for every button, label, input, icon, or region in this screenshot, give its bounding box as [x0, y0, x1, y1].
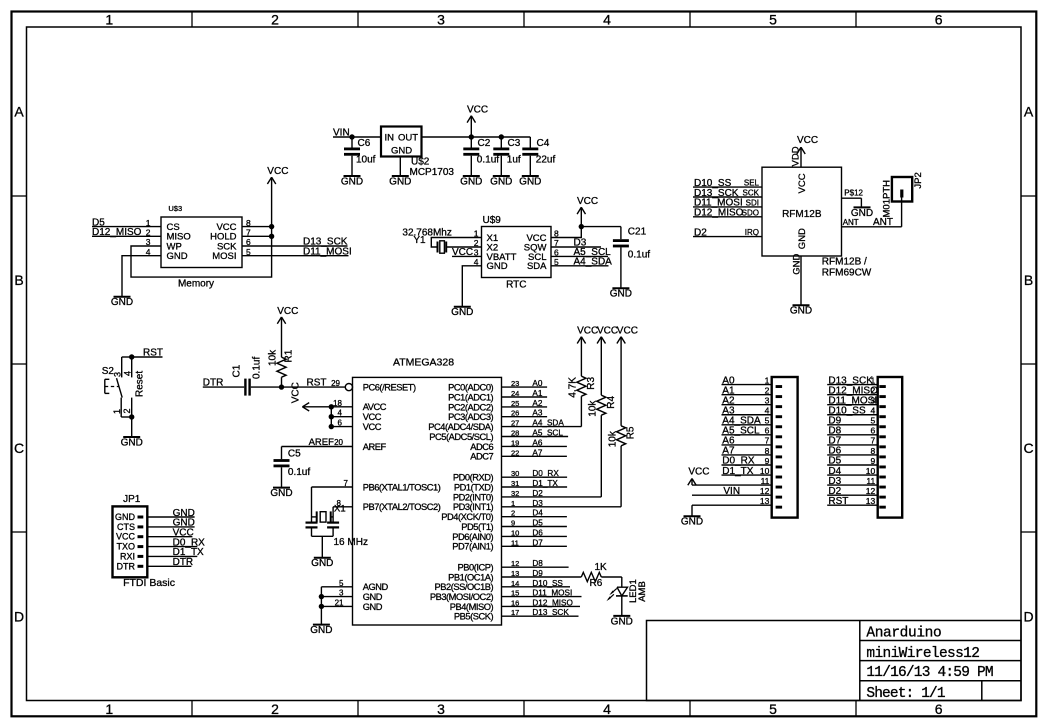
svg-text:PD5(T1): PD5(T1)	[461, 522, 493, 532]
svg-text:D: D	[1024, 608, 1034, 624]
svg-text:D12_MISO: D12_MISO	[694, 208, 744, 219]
svg-text:10k: 10k	[268, 349, 279, 366]
svg-text:RFM12B: RFM12B	[782, 209, 822, 220]
svg-text:C4: C4	[537, 138, 550, 149]
svg-text:JP2: JP2	[913, 172, 924, 188]
svg-text:VCC: VCC	[267, 166, 288, 177]
svg-text:GND: GND	[519, 176, 541, 187]
svg-text:RFM12B /: RFM12B /	[822, 257, 867, 268]
svg-text:VCC: VCC	[577, 326, 598, 337]
svg-text:2: 2	[271, 701, 279, 717]
svg-text:RFM69CW: RFM69CW	[822, 267, 872, 278]
svg-text:D0_RX: D0_RX	[532, 469, 559, 478]
svg-text:RST: RST	[828, 496, 848, 507]
svg-text:AGND: AGND	[363, 582, 389, 592]
svg-text:AVCC: AVCC	[363, 402, 387, 412]
svg-text:5: 5	[339, 579, 344, 588]
svg-text:GND: GND	[487, 261, 508, 272]
svg-text:U$3: U$3	[168, 204, 182, 213]
svg-text:Anarduino: Anarduino	[866, 626, 941, 642]
svg-text:3: 3	[437, 701, 445, 717]
svg-text:S2: S2	[102, 366, 115, 377]
svg-text:PD1(TXD): PD1(TXD)	[454, 482, 494, 492]
svg-text:A7: A7	[532, 448, 542, 457]
svg-text:Reset: Reset	[134, 371, 145, 397]
svg-text:20: 20	[334, 438, 343, 447]
svg-text:VCC: VCC	[452, 247, 473, 258]
svg-text:C21: C21	[628, 227, 647, 238]
svg-text:GND: GND	[270, 488, 292, 499]
svg-text:GND: GND	[681, 517, 703, 528]
svg-text:GND: GND	[451, 307, 473, 318]
svg-text:GND: GND	[389, 176, 411, 187]
svg-text:PC3(ADC3): PC3(ADC3)	[448, 412, 493, 422]
svg-text:U$2: U$2	[411, 157, 430, 168]
svg-text:A4_SDA: A4_SDA	[574, 257, 613, 268]
svg-text:FTDI Basic: FTDI Basic	[123, 577, 175, 589]
svg-text:TXO: TXO	[116, 542, 135, 552]
svg-text:0.1uf: 0.1uf	[477, 155, 499, 166]
svg-text:VCC: VCC	[797, 173, 808, 193]
svg-text:PD2(INT0): PD2(INT0)	[453, 492, 494, 502]
svg-text:ATMEGA328: ATMEGA328	[393, 357, 454, 369]
svg-text:OUT: OUT	[398, 133, 418, 144]
svg-text:VCC: VCC	[277, 306, 298, 317]
svg-text:GND: GND	[797, 228, 808, 249]
svg-text:A4_SDA: A4_SDA	[532, 419, 564, 428]
svg-text:1: 1	[105, 12, 113, 28]
svg-text:RXI: RXI	[120, 551, 135, 561]
svg-text:0.1uf: 0.1uf	[252, 357, 263, 379]
svg-text:2: 2	[122, 408, 132, 413]
svg-text:VIN: VIN	[723, 486, 740, 497]
svg-text:D2: D2	[532, 489, 543, 498]
svg-text:IRQ: IRQ	[745, 228, 759, 237]
svg-text:GND: GND	[610, 289, 632, 300]
svg-text:6: 6	[338, 419, 343, 428]
svg-text:P$12: P$12	[844, 189, 863, 198]
svg-text:A1: A1	[532, 389, 542, 398]
svg-text:PC2(ADC2): PC2(ADC2)	[448, 402, 493, 412]
svg-text:29: 29	[331, 379, 340, 388]
svg-text:IN: IN	[385, 133, 395, 144]
svg-text:VCC: VCC	[363, 422, 382, 432]
svg-text:5: 5	[769, 12, 777, 28]
svg-text:ADC7: ADC7	[470, 452, 493, 462]
svg-text:D1_TX: D1_TX	[532, 479, 558, 488]
svg-text:D6: D6	[532, 528, 543, 537]
svg-text:R5: R5	[626, 426, 637, 439]
svg-text:Memory: Memory	[178, 279, 214, 290]
svg-text:10uf: 10uf	[356, 155, 376, 166]
svg-text:X1: X1	[334, 504, 346, 515]
svg-text:R3: R3	[586, 376, 597, 389]
svg-text:11/16/13 4:59 PM: 11/16/13 4:59 PM	[866, 665, 993, 681]
svg-text:AREF: AREF	[309, 437, 335, 448]
svg-text:ANT: ANT	[873, 217, 893, 228]
svg-text:PC1(ADC1): PC1(ADC1)	[448, 392, 493, 402]
svg-text:4.7K: 4.7K	[568, 377, 579, 398]
svg-text:4: 4	[603, 12, 611, 28]
svg-text:R1: R1	[284, 349, 295, 362]
svg-text:D8: D8	[532, 559, 543, 568]
svg-text:miniWireless12: miniWireless12	[866, 646, 979, 662]
svg-text:MCP1703: MCP1703	[410, 167, 455, 178]
svg-text:B: B	[1024, 272, 1033, 288]
svg-text:GND: GND	[111, 297, 133, 308]
svg-text:GND: GND	[363, 592, 383, 602]
svg-text:GND: GND	[460, 176, 482, 187]
svg-text:Sheet: 1/1: Sheet: 1/1	[866, 686, 944, 702]
svg-text:D1_TX: D1_TX	[722, 466, 753, 477]
svg-text:GND: GND	[790, 306, 812, 317]
svg-text:PC6(/RESET): PC6(/RESET)	[363, 383, 416, 393]
svg-text:VDD: VDD	[791, 146, 802, 166]
svg-text:3: 3	[437, 12, 445, 28]
svg-text:A0: A0	[532, 379, 542, 388]
svg-text:D4: D4	[532, 509, 543, 518]
svg-text:PB2(SS/OC1B): PB2(SS/OC1B)	[435, 582, 494, 592]
svg-text:ADC6: ADC6	[470, 442, 493, 452]
svg-text:D3: D3	[532, 499, 543, 508]
svg-text:RST: RST	[143, 348, 163, 359]
svg-text:10k: 10k	[588, 400, 599, 417]
svg-text:D9: D9	[532, 569, 543, 578]
svg-text:PD0(RXD): PD0(RXD)	[453, 473, 494, 483]
svg-text:PC4(ADC4/SDA): PC4(ADC4/SDA)	[428, 422, 493, 432]
svg-text:A: A	[1024, 104, 1034, 120]
svg-text:MOSI: MOSI	[212, 251, 236, 262]
svg-text:0.1uf: 0.1uf	[288, 467, 310, 478]
svg-text:A: A	[14, 104, 24, 120]
svg-text:GND: GND	[167, 251, 188, 262]
svg-text:2: 2	[271, 12, 279, 28]
svg-text:C6: C6	[358, 138, 371, 149]
svg-text:D11_MOSI: D11_MOSI	[303, 246, 352, 257]
svg-text:R6: R6	[590, 578, 603, 589]
svg-text:GND: GND	[311, 558, 333, 569]
svg-text:C: C	[14, 440, 24, 456]
svg-text:DTR: DTR	[117, 561, 136, 571]
svg-text:PB4(MISO): PB4(MISO)	[450, 602, 494, 612]
svg-text:D12_MISO: D12_MISO	[92, 227, 142, 238]
svg-text:AREF: AREF	[363, 442, 387, 452]
svg-text:SCK: SCK	[743, 189, 760, 198]
svg-text:GND: GND	[611, 616, 633, 627]
svg-text:PD7(AIN1): PD7(AIN1)	[452, 542, 493, 552]
svg-text:A3: A3	[532, 409, 542, 418]
svg-text:RTC: RTC	[506, 280, 526, 291]
svg-text:1K: 1K	[595, 562, 608, 573]
svg-text:10k: 10k	[607, 430, 618, 447]
svg-text:B: B	[14, 272, 23, 288]
svg-text:C5: C5	[288, 448, 301, 459]
svg-text:VIN: VIN	[333, 128, 350, 139]
svg-text:1: 1	[105, 701, 113, 717]
svg-text:18: 18	[333, 399, 342, 408]
svg-text:0.1uf: 0.1uf	[628, 249, 650, 260]
svg-text:VCC: VCC	[597, 326, 618, 337]
svg-text:GND: GND	[490, 176, 512, 187]
svg-text:VCC: VCC	[291, 382, 302, 403]
svg-text:VCC: VCC	[688, 466, 709, 477]
svg-text:C2: C2	[478, 138, 491, 149]
svg-text:21: 21	[335, 598, 344, 607]
svg-text:22uf: 22uf	[536, 155, 556, 166]
svg-text:PB3(MOSI/OC2): PB3(MOSI/OC2)	[430, 592, 494, 602]
svg-text:GND: GND	[363, 602, 383, 612]
svg-text:PB7(XTAL2/TOSC2): PB7(XTAL2/TOSC2)	[363, 502, 441, 512]
svg-text:AMB: AMB	[637, 581, 648, 602]
svg-text:RST: RST	[307, 378, 327, 389]
svg-text:PB5(SCK): PB5(SCK)	[454, 612, 494, 622]
svg-text:4: 4	[603, 701, 611, 717]
svg-text:VCC: VCC	[797, 135, 818, 146]
svg-text:M01PTH: M01PTH	[881, 180, 892, 218]
svg-text:VCC: VCC	[467, 105, 488, 116]
svg-text:GND: GND	[792, 254, 803, 275]
svg-text:4: 4	[338, 409, 343, 418]
svg-text:PC0(ADC0): PC0(ADC0)	[448, 383, 493, 393]
svg-text:DTR: DTR	[173, 557, 194, 568]
svg-text:JP1: JP1	[123, 494, 141, 505]
svg-text:5: 5	[769, 701, 777, 717]
svg-text:SDA: SDA	[527, 261, 547, 272]
svg-text:GND: GND	[121, 437, 143, 448]
svg-text:PB0(ICP): PB0(ICP)	[458, 563, 494, 573]
svg-text:GND: GND	[310, 625, 332, 636]
svg-text:PC5(ADC5/SCL): PC5(ADC5/SCL)	[429, 432, 493, 442]
svg-text:C: C	[1024, 440, 1034, 456]
svg-text:Y1: Y1	[413, 235, 426, 246]
svg-text:A5_SCL: A5_SCL	[532, 429, 563, 438]
svg-text:D10_SS: D10_SS	[532, 579, 563, 588]
svg-text:D5: D5	[532, 519, 543, 528]
svg-text:PD6(AIN0): PD6(AIN0)	[452, 532, 493, 542]
svg-text:SDI: SDI	[746, 198, 759, 207]
svg-text:3: 3	[339, 589, 344, 598]
svg-text:SEL: SEL	[744, 179, 760, 188]
svg-text:ANT: ANT	[843, 218, 859, 227]
svg-text:7: 7	[344, 479, 349, 488]
svg-text:6: 6	[935, 701, 943, 717]
svg-text:D: D	[14, 608, 24, 624]
svg-text:1: 1	[112, 409, 122, 414]
svg-text:C1: C1	[232, 364, 243, 377]
svg-text:A2: A2	[532, 399, 542, 408]
svg-text:6: 6	[935, 12, 943, 28]
svg-text:U$9: U$9	[483, 215, 502, 226]
svg-text:GND: GND	[115, 512, 136, 522]
svg-text:PD3(INT1): PD3(INT1)	[453, 502, 494, 512]
svg-text:D7: D7	[532, 538, 543, 547]
svg-text:D2: D2	[694, 227, 707, 238]
svg-text:GND: GND	[341, 176, 363, 187]
svg-text:VCC: VCC	[617, 326, 638, 337]
svg-text:1uf: 1uf	[507, 155, 521, 166]
svg-text:A6: A6	[532, 438, 542, 447]
svg-text:4: 4	[123, 371, 133, 376]
svg-text:CTS: CTS	[117, 522, 135, 532]
svg-text:GND: GND	[391, 146, 412, 157]
svg-text:SDO: SDO	[742, 208, 759, 217]
svg-text:16 MHz: 16 MHz	[334, 537, 368, 548]
svg-text:VCC: VCC	[577, 196, 598, 207]
svg-text:D13_SCK: D13_SCK	[532, 608, 569, 617]
svg-text:VCC: VCC	[363, 412, 382, 422]
svg-text:32.768Mhz: 32.768Mhz	[402, 227, 451, 238]
svg-text:PD4(XCK/T0): PD4(XCK/T0)	[441, 512, 493, 522]
svg-text:PB1(OC1A): PB1(OC1A)	[448, 572, 493, 582]
svg-text:D12_MISO: D12_MISO	[532, 598, 573, 607]
svg-text:PB6(XTAL1/TOSC1): PB6(XTAL1/TOSC1)	[363, 482, 441, 492]
svg-text:C3: C3	[508, 138, 521, 149]
svg-text:VCC: VCC	[116, 532, 136, 542]
svg-text:D11_MOSI: D11_MOSI	[532, 589, 572, 598]
svg-text:R4: R4	[606, 395, 617, 408]
